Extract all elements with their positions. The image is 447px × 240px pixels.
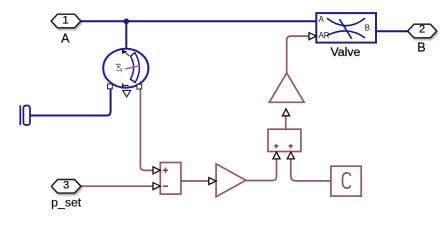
svg-text:p_set: p_set [51,196,82,210]
svg-text:2: 2 [419,24,425,36]
svg-text:A: A [61,31,70,45]
wire: sensor P output down and right to sum + input [140,89,153,171]
sensor T glyph [123,83,129,88]
hydraulic reference [20,105,30,125]
svg-text:B: B [417,41,425,55]
outport 2 [408,24,437,38]
valve AR input arrow [309,33,316,40]
svg-text:A: A [319,15,325,24]
wire: gain output to add block left input [246,159,277,181]
sensor inner gauge band [130,53,139,83]
vertical gain block [269,73,304,102]
wire: constant C to add block right input [291,159,331,181]
wire: vertical gain output to valve AR input [287,36,309,73]
valve block [316,13,376,42]
sensor bottom-left port square [108,84,113,89]
wire: valve B to port 2 [376,30,408,32]
inport 1 [51,14,81,28]
sum + input arrow [153,167,160,174]
constant C block [331,166,361,196]
svg-text:Valve: Valve [330,45,360,59]
junction dot [124,19,130,25]
inport 3 [51,180,80,194]
wire: port 3 to sum - input [81,185,153,187]
pressure sensor body [103,49,148,97]
svg-text:p/T: p/T [115,64,122,73]
valve upper curve [327,18,365,25]
wire A: port1 to valve A [81,20,316,22]
add block right input arrow [287,152,294,159]
gain block [216,164,246,197]
sensor needle [125,66,140,69]
svg-text:B: B [365,23,370,32]
sum block [160,163,181,195]
sensor bottom-right port square [137,84,142,89]
wire: sum output to gain input [181,180,209,182]
sensor down triangle marker [123,90,131,97]
svg-text:3: 3 [63,180,69,192]
valve diagonal [340,19,352,39]
add block [268,129,301,151]
sensor top arrow glyph [122,50,127,54]
wire: junction down to sensor top [125,21,127,49]
wire: hydraulic reference to sensor bottom-left port [30,89,111,116]
vertical gain input arrow [282,109,289,116]
add block left input arrow [273,152,280,159]
svg-text:1: 1 [63,14,69,26]
gain input arrow [209,178,216,185]
valve lower curve [327,31,365,38]
sum - input arrow [153,183,160,190]
wire: add block output up to vertical gain input [285,116,287,129]
